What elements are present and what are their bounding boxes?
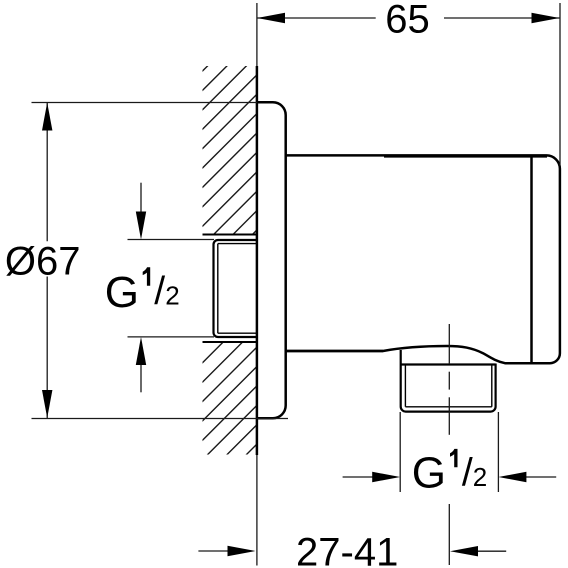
dim 65: arrowhead right: [532, 13, 560, 23]
dim 27-41: arrow right (points left at centerline): [476, 550, 506, 552]
wall face line (object, thick): [256, 66, 259, 455]
dim G1/2 bottom: extension line right: [497, 412, 499, 492]
outlet centerline (dash pattern): [448, 324, 450, 565]
rear inlet union (outer outline): [214, 240, 257, 337]
svg-text:2: 2: [165, 280, 179, 310]
bottom outlet thread inner lines: [405, 365, 491, 407]
inlet leader line lower: [128, 336, 215, 338]
dim Ø67: arrowhead bottom: [42, 390, 52, 418]
label G 1/2 (left inlet): [105, 267, 180, 317]
dim Ø67: extension line bottom: [32, 418, 289, 420]
dim G1/2 bottom: arrow left (points right): [343, 476, 374, 478]
wall hatch upper: [0, 0, 487, 487]
dim 27-41: wall extension line bottom: [256, 455, 258, 566]
wall recess edge upper: [203, 234, 257, 236]
dim G1/2 bottom: arrow right (points left): [524, 476, 556, 478]
dim 65: extension line left (wall top): [256, 3, 258, 66]
dim Ø67: extension line top: [32, 102, 258, 104]
dim 65: arrowhead left: [257, 13, 285, 23]
svg-text:G: G: [412, 449, 446, 498]
dim G1/2 bottom: extension line left: [399, 412, 401, 492]
escutcheon flange outline: [257, 102, 286, 418]
dim 27-41: arrow left (points right at wall): [198, 550, 229, 552]
svg-text:65: 65: [385, 0, 430, 42]
svg-text:/: /: [462, 452, 473, 495]
cap seam line: [530, 155, 533, 363]
dim 65: extension line right: [559, 3, 561, 166]
top silhouette double edge: [384, 155, 547, 158]
wall recess edge lower: [203, 341, 257, 343]
svg-text:G: G: [105, 268, 139, 317]
body bottom silhouette between flange and boss: [286, 350, 383, 353]
label G 1/2 (bottom outlet): [412, 449, 488, 498]
inlet arrow upper (down): [140, 183, 142, 215]
dim 65: dimension line: [257, 17, 376, 19]
svg-text:2: 2: [473, 462, 487, 492]
rear inlet thread inner lines: [218, 244, 257, 334]
dim Ø67: arrowhead top: [42, 103, 52, 131]
svg-text:Ø67: Ø67: [5, 240, 81, 284]
svg-text:27-41: 27-41: [296, 531, 398, 568]
inlet leader line upper: [128, 239, 215, 241]
svg-text:/: /: [154, 270, 165, 313]
bottom outlet top edge: [401, 363, 496, 365]
body top silhouette with right cap: [286, 155, 560, 363]
dim Ø67: dimension line: [46, 103, 48, 242]
bottom outlet nipple (outer outline): [401, 350, 496, 412]
inlet arrow lower (up): [140, 364, 142, 392]
